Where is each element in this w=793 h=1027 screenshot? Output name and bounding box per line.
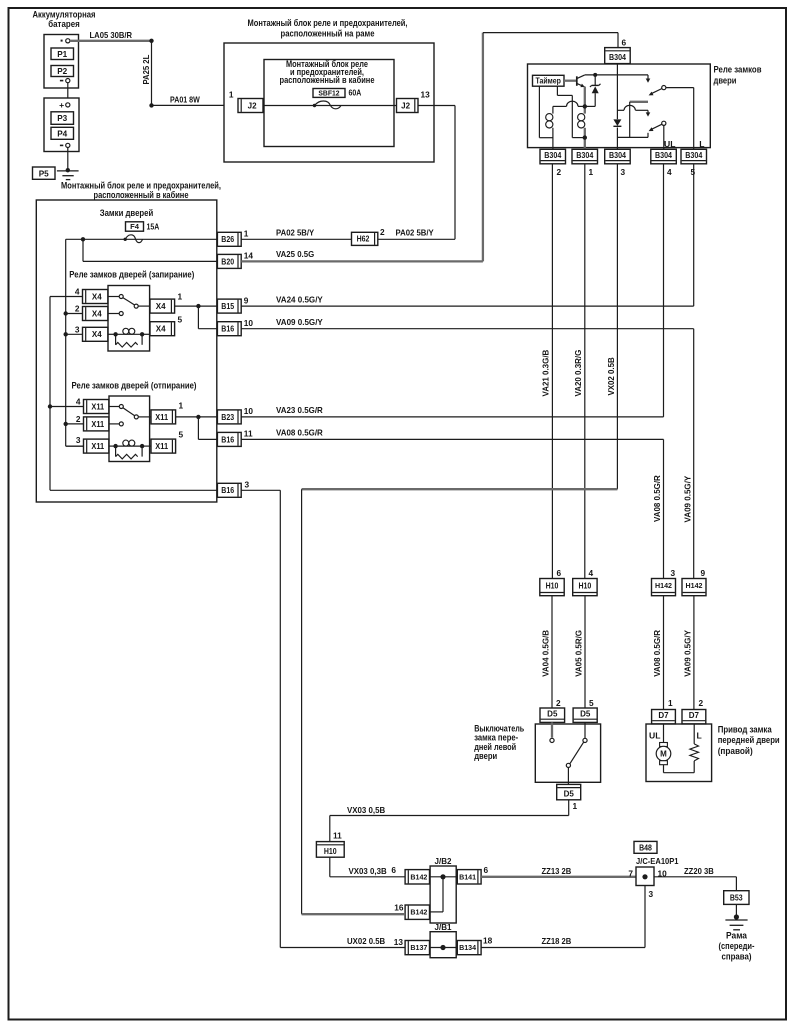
connector X11 (pin 4): [84, 400, 109, 414]
connector X11 (pin 3): [84, 439, 109, 453]
wire UX02 0.5B row: [280, 947, 405, 949]
wire X11 output to B16 pin11: [198, 417, 217, 440]
junction F4 node: [81, 237, 85, 241]
svg-text:D5: D5: [580, 710, 591, 719]
pin 2 (H62): [380, 227, 385, 237]
wire PA02 5B/Y (B26 to H62): [241, 238, 351, 240]
svg-text:двери: двери: [474, 751, 497, 761]
pin 9 (H142 right): [701, 568, 706, 578]
connector B304 (pin 4): [651, 149, 677, 164]
lock relay X4 box: [108, 286, 150, 352]
wire label VA23 0.5G/R: [276, 405, 323, 415]
svg-text:X11: X11: [91, 420, 104, 429]
wire label VA09 0.5G/Y: [276, 317, 323, 327]
svg-text:13: 13: [394, 937, 404, 947]
wire VX03 0,5B: [330, 800, 569, 842]
connector B304 (pin 2): [540, 149, 566, 164]
svg-text:10: 10: [244, 318, 254, 328]
wire switch common: [567, 768, 569, 785]
wire label VX03 0,5B: [347, 805, 385, 815]
connector B304 (pin 1): [572, 149, 598, 164]
pin 2 (D5): [556, 698, 561, 708]
pin 4 (B304): [667, 167, 672, 177]
fuse P2: [51, 66, 74, 77]
svg-text:18: 18: [483, 936, 493, 946]
wire X4 pin2 branch: [66, 313, 83, 315]
svg-text:9: 9: [244, 295, 249, 305]
svg-text:SBF12: SBF12: [318, 88, 339, 97]
wire PA25 2L: [151, 41, 153, 106]
svg-text:B137: B137: [410, 945, 427, 952]
svg-text:VA23 0.5G/R: VA23 0.5G/R: [276, 405, 323, 415]
battery lower section (P3/P4): [44, 98, 79, 152]
connector D7 (pin 2): [682, 710, 706, 724]
junction ground node: [734, 914, 739, 919]
value label 15A: [147, 222, 160, 232]
svg-text:(правой): (правой): [718, 746, 753, 756]
svg-text:Привод замка: Привод замка: [718, 725, 772, 735]
svg-text:P2: P2: [57, 67, 67, 76]
connector X4 (pin 3): [83, 327, 108, 341]
wire VX03 0,3B: [330, 857, 405, 877]
relay coil K1: [546, 114, 553, 128]
svg-text:Реле замков дверей (запирание): Реле замков дверей (запирание): [69, 269, 194, 279]
wire VX02 down branch: [301, 489, 303, 914]
svg-text:1: 1: [668, 698, 673, 708]
wire lower pivot to UL output: [663, 125, 665, 149]
svg-text:D7: D7: [658, 711, 669, 720]
svg-text:расположенный в кабине: расположенный в кабине: [280, 75, 375, 85]
X11 contact blade: [123, 408, 138, 419]
connector B53: [724, 891, 749, 905]
wire VX02 0.5B: [616, 164, 618, 489]
svg-text:справа): справа): [722, 951, 752, 961]
switch blade: [566, 742, 583, 767]
svg-text:16: 16: [394, 902, 404, 912]
svg-text:(спереди-: (спереди-: [719, 941, 755, 951]
svg-text:D7: D7: [689, 711, 700, 720]
svg-text:расположенный в кабине: расположенный в кабине: [94, 190, 189, 200]
pin 13 (B137): [394, 937, 404, 947]
wire B16 pin3 to UX02 branch: [241, 490, 280, 947]
connector H142 (pin 9): [682, 579, 706, 596]
junction at battery ground: [66, 168, 70, 172]
junction left rail / X4 pin3: [63, 332, 67, 336]
wire actuator internal link: [664, 772, 695, 774]
pin 2 (D7): [699, 698, 704, 708]
svg-text:5: 5: [589, 698, 594, 708]
wire to door-lock relay pin 6: [483, 33, 618, 48]
svg-text:PA01 8W: PA01 8W: [170, 95, 200, 105]
terminal + (battery upper): [61, 39, 70, 43]
pin 3 (X11): [76, 435, 81, 445]
svg-text:5: 5: [179, 430, 184, 440]
motor M: [656, 724, 671, 773]
wire X4 pin3 branch: [66, 333, 83, 335]
wire label PA02 5B/Y (right): [396, 227, 435, 237]
wire VA05 0.5R/G: [584, 596, 586, 708]
svg-text:4: 4: [75, 287, 80, 297]
wire X4 output to B16 pin10: [198, 306, 217, 329]
svg-text:VX03 0,3B: VX03 0,3B: [349, 866, 387, 876]
pin 1 (B26): [244, 229, 249, 239]
svg-text:Замки дверей: Замки дверей: [100, 208, 154, 218]
svg-text:X4: X4: [92, 292, 102, 301]
switch contact right: [583, 722, 587, 742]
pin 5 (X11): [179, 430, 184, 440]
wire VA25 0.5G (highlighted): [241, 33, 483, 262]
pin 1 (X4): [178, 292, 183, 302]
svg-text:H10: H10: [324, 847, 337, 856]
pin 4 (X11): [76, 397, 81, 407]
pin 6 (B304 top): [622, 38, 627, 48]
wire coil K1 to pin 2: [552, 106, 554, 149]
connector H62: [352, 232, 378, 245]
wire timer output 2: [557, 86, 583, 137]
svg-text:J2: J2: [401, 101, 410, 110]
connector B23: [217, 410, 241, 424]
wire VA09 0.5G/Y lower: [693, 596, 695, 710]
svg-text:1: 1: [244, 229, 249, 239]
label J/C-EA10P1: [636, 856, 679, 866]
wire label VA09 0.5G/Y (upper): [683, 475, 693, 522]
svg-text:UL: UL: [649, 731, 660, 741]
svg-text:4: 4: [76, 397, 81, 407]
svg-text:11: 11: [244, 429, 253, 439]
svg-text:P1: P1: [57, 50, 67, 59]
connector B304 (pin 5): [681, 149, 707, 164]
pin 11 (B16): [244, 429, 253, 439]
svg-text:X4: X4: [92, 330, 102, 339]
X11 contact throws: [109, 405, 123, 426]
wire VA08 0.5G/R row: [241, 438, 663, 440]
pin 5 (X4): [178, 314, 183, 324]
pin 3 (B304): [621, 167, 626, 177]
svg-text:3: 3: [621, 167, 626, 177]
ground (frame, front right): [725, 920, 747, 930]
frame relay/fuse block box: [224, 43, 434, 162]
wire L branch upper: [693, 164, 695, 306]
wire B+ rail (pin6 to pin3): [616, 64, 618, 150]
svg-text:B23: B23: [221, 413, 234, 422]
pin 7 (J/C): [628, 869, 633, 879]
wire label PA25 2L: [141, 55, 151, 85]
svg-text:B304: B304: [609, 151, 626, 160]
label Рама (спереди-справа): [719, 930, 755, 961]
svg-text:2: 2: [699, 698, 704, 708]
svg-text:VA09 0.5G/Y: VA09 0.5G/Y: [683, 475, 693, 522]
pin 3 (B16): [245, 479, 250, 489]
pin 4 (X4): [75, 287, 80, 297]
label Монтажный блок реле и предохранителей, расположенный на раме: [248, 18, 408, 38]
label L: [699, 139, 704, 149]
svg-text:4: 4: [589, 568, 594, 578]
wire X4 blade to pin1: [138, 305, 150, 307]
junction coil K2 bottom: [583, 135, 587, 139]
X4 contact throws: [108, 295, 123, 316]
wire label VX02 0.5B: [606, 357, 616, 395]
label L (actuator): [697, 731, 702, 741]
connector X4 (pin 4): [83, 290, 108, 304]
svg-text:+: +: [59, 100, 64, 110]
zener diode VD1: [590, 75, 601, 107]
ground (battery, frame): [57, 171, 79, 180]
fuse P3: [51, 112, 74, 125]
connector B20: [217, 254, 241, 268]
wire X11 pin4 branch: [50, 406, 84, 408]
door switch box: [535, 724, 600, 782]
wire B142 pin16 row (highlighted): [302, 913, 406, 915]
svg-text:J/B1: J/B1: [435, 922, 452, 932]
svg-text:3: 3: [671, 568, 676, 578]
svg-text:двери: двери: [714, 75, 737, 85]
svg-text:2: 2: [557, 167, 562, 177]
transistor Q1 (NPN): [577, 75, 585, 87]
relay coil K2: [578, 114, 585, 128]
wire label VA24 0.5G/Y: [276, 294, 323, 304]
svg-text:3: 3: [75, 324, 80, 334]
svg-text:X11: X11: [91, 402, 104, 411]
wire PA02 5B/Y (H62 to J2 branch): [378, 238, 455, 240]
wire zener to emitter node: [585, 105, 595, 107]
unlock relay X11 box: [109, 396, 150, 462]
fuse P1: [51, 48, 74, 60]
wire X4 pin1 to B15: [175, 305, 218, 307]
svg-text:B304: B304: [685, 151, 702, 160]
label Монтажный блок реле и предохранителей, расположенный в кабине: [61, 180, 221, 200]
svg-text:3: 3: [76, 435, 81, 445]
pin 1 (J2 left): [229, 90, 234, 100]
svg-text:5: 5: [178, 314, 183, 324]
wire L branch lower: [693, 329, 695, 579]
svg-text:Аккумуляторная: Аккумуляторная: [33, 10, 96, 20]
svg-text:батарея: батарея: [48, 19, 80, 29]
svg-text:B16: B16: [221, 486, 234, 495]
fuse label F4: [126, 222, 144, 231]
wire ZZ20 3B: [654, 877, 736, 891]
svg-text:11: 11: [333, 831, 342, 841]
connector B26: [217, 232, 241, 246]
svg-text:LA05 30B/R: LA05 30B/R: [90, 30, 133, 40]
connector X11 (pin 2): [84, 417, 109, 431]
wire label VA09 0.5G/Y (lower): [683, 630, 693, 677]
svg-text:3: 3: [245, 479, 250, 489]
wire label ZZ20 3B: [684, 866, 714, 876]
svg-text:13: 13: [421, 90, 431, 100]
pin 3 (J/C): [649, 889, 654, 899]
svg-text:B16: B16: [221, 325, 234, 334]
fuse P4: [51, 127, 74, 139]
wire X11 pin2 branch: [66, 423, 84, 425]
svg-text:X11: X11: [91, 442, 104, 451]
label Аккумуляторная батарея: [33, 10, 96, 30]
wire label VA08 0.5G/R: [276, 428, 323, 438]
junction block J/B2: [430, 856, 456, 923]
pin 1 (D5): [573, 801, 578, 811]
wire ZZ18 2B: [481, 886, 645, 948]
svg-text:J/B2: J/B2: [435, 856, 452, 866]
junction X4 output: [196, 304, 200, 308]
wire PA01 8W: [152, 104, 225, 106]
svg-text:J/C-EA10P1: J/C-EA10P1: [636, 856, 679, 866]
svg-text:Реле замков дверей (отпирание): Реле замков дверей (отпирание): [72, 380, 197, 390]
wire VA20 0.3R/G: [584, 164, 586, 579]
wire UL branch upper: [663, 164, 665, 417]
junction collector/zener: [593, 73, 597, 77]
svg-text:D5: D5: [564, 790, 575, 799]
pin 6 (B141): [484, 865, 489, 875]
svg-text:UX02 0.5B: UX02 0.5B: [347, 936, 385, 946]
X11 coil resistor: [116, 446, 143, 459]
svg-text:B304: B304: [544, 151, 561, 160]
connector B142 (pin 6): [405, 870, 429, 884]
pin 3 (H142 left): [671, 568, 676, 578]
svg-text:P3: P3: [57, 114, 67, 123]
connector B137 (pin 13): [405, 941, 429, 955]
wire VA21 0.3G/B: [551, 164, 553, 579]
wire label LA05 30B/R: [90, 30, 133, 40]
svg-text:PA02 5B/Y: PA02 5B/Y: [396, 227, 435, 237]
connector H10 (pin 6): [540, 579, 564, 596]
svg-text:X4: X4: [156, 325, 166, 334]
pin 9 (B15): [244, 295, 249, 305]
svg-text:6: 6: [557, 568, 562, 578]
svg-text:VX03 0,5B: VX03 0,5B: [347, 805, 385, 815]
svg-text:1: 1: [229, 90, 234, 100]
timer block Таймер: [533, 75, 565, 86]
label Реле замков двери: [714, 64, 763, 85]
X4 coil resistor: [116, 334, 143, 347]
X11 coil row: [109, 440, 151, 448]
svg-text:VA09 0.5G/Y: VA09 0.5G/Y: [276, 317, 323, 327]
middle throw (highlighted): [630, 101, 648, 103]
wire VA23 0.5G/R: [241, 416, 663, 418]
wire label PA02 5B/Y (left): [276, 227, 315, 237]
svg-text:Реле замков: Реле замков: [714, 64, 763, 74]
svg-text:9: 9: [701, 568, 706, 578]
wire VA24 0.5G/Y: [241, 305, 694, 307]
wire timer to transistor base (highlighted): [564, 80, 577, 82]
fuse label SBF12: [313, 88, 345, 97]
svg-text:Рама: Рама: [726, 930, 747, 940]
svg-text:H142: H142: [686, 583, 703, 590]
pin 1 (X11): [179, 400, 184, 410]
wire VX02 link row (highlighted): [302, 488, 618, 490]
terminal - (battery lower): [60, 143, 70, 147]
pin 13 (J2 right): [421, 90, 431, 100]
pin 2 (X4): [75, 304, 80, 314]
svg-text:D5: D5: [547, 710, 558, 719]
junction J/B2 node: [440, 874, 445, 879]
svg-text:ZZ20 3B: ZZ20 3B: [684, 866, 714, 876]
svg-text:1: 1: [179, 400, 184, 410]
connector B48 label box: [634, 841, 657, 853]
connector D5 (pin 5): [573, 708, 597, 722]
pin 10 (B23): [244, 406, 254, 416]
connector J2 (left): [238, 99, 263, 113]
pin 10 (J/C): [658, 869, 668, 879]
svg-text:VA20 0.3R/G: VA20 0.3R/G: [573, 350, 583, 397]
label Привод замка передней двери (правой): [718, 725, 780, 756]
wire coil K2 to pin 1 (highlighted): [584, 128, 586, 150]
connector X11 (pin 1): [151, 410, 176, 424]
svg-text:15A: 15A: [147, 222, 160, 232]
svg-text:6: 6: [484, 865, 489, 875]
pin 16 (B142): [394, 902, 404, 912]
svg-text:X4: X4: [92, 309, 102, 318]
svg-text:1: 1: [178, 292, 183, 302]
pin 11 (H10): [333, 831, 342, 841]
svg-text:Монтажный блок реле и предохра: Монтажный блок реле и предохранителей,: [61, 180, 221, 190]
cab relay/fuse block box: [36, 200, 217, 502]
junction emitter/coil1 node: [583, 104, 587, 108]
svg-text:M: M: [660, 750, 667, 759]
svg-text:B16: B16: [221, 435, 234, 444]
wire label UX02 0.5B: [347, 936, 385, 946]
wire bottom rail link: [617, 136, 648, 138]
pin 5 (D5): [589, 698, 594, 708]
svg-text:B304: B304: [609, 53, 626, 62]
switch contact left (highlighted stub): [550, 722, 554, 742]
connector B141 (pin 6): [457, 870, 481, 884]
connector X4 (pin 5): [150, 322, 175, 336]
label Выключатель замка передней левой двери: [474, 724, 524, 762]
svg-text:2: 2: [556, 698, 561, 708]
wire J2 pin13 to PA02 node: [418, 106, 455, 240]
pin 2 (B304): [557, 167, 562, 177]
wire label VX03 0,3B: [349, 866, 387, 876]
lower contact throw (from rail, with jump): [617, 105, 650, 116]
pin 2 (X11): [76, 414, 81, 424]
svg-text:10: 10: [244, 406, 254, 416]
wire VA08 0.5G/R lower: [663, 596, 665, 710]
svg-text:L: L: [699, 139, 704, 149]
svg-text:6: 6: [391, 865, 396, 875]
value label 60A: [349, 88, 362, 98]
svg-text:B15: B15: [221, 302, 234, 311]
svg-text:PA25 2L: PA25 2L: [141, 55, 151, 85]
wire collector rail: [585, 74, 648, 76]
J/B1 internal wire: [430, 947, 458, 949]
diode VD2 on rail: [613, 119, 621, 126]
svg-text:B48: B48: [639, 844, 652, 853]
door lock relay box: [528, 64, 711, 148]
svg-text:VA04 0.5G/B: VA04 0.5G/B: [541, 630, 551, 677]
wire F4 node down to B20: [83, 239, 217, 261]
svg-text:P5: P5: [39, 169, 49, 178]
svg-text:2: 2: [75, 304, 80, 314]
wire label ZZ13 2B: [542, 866, 572, 876]
wire emitter line (highlighted): [584, 87, 586, 114]
svg-text:B304: B304: [655, 151, 672, 160]
wire label VA21 0.3G/B: [541, 350, 551, 397]
connector B304 (pin 6, top): [605, 48, 631, 64]
terminal - (battery upper): [60, 79, 70, 83]
wire LA05 30B/R: [70, 40, 152, 42]
junction left rail / X11 pin2: [63, 422, 67, 426]
svg-text:H10: H10: [546, 581, 559, 590]
connector H10 (pin 4): [573, 579, 597, 596]
wire label ZZ18 2B: [542, 936, 572, 946]
svg-text:5: 5: [691, 167, 696, 177]
svg-text:1: 1: [573, 801, 578, 811]
junction block J/B1: [430, 922, 456, 958]
wire label VA05 0.5R/G: [573, 630, 583, 677]
svg-text:3: 3: [649, 889, 654, 899]
svg-text:14: 14: [244, 251, 254, 261]
connector X4 (pin 1): [150, 299, 175, 313]
connector J2 (right): [397, 99, 419, 113]
